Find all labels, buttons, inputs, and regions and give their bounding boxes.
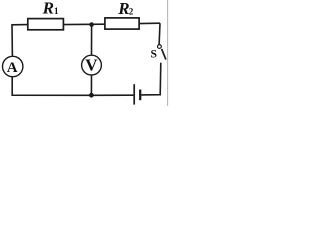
- resistor R2: [105, 18, 139, 29]
- svg-text:R: R: [117, 0, 129, 18]
- svg-text:1: 1: [54, 6, 59, 16]
- switch S blade: [162, 49, 166, 60]
- wire between R1 and R2: [63, 23, 105, 25]
- wire junction down to voltmeter: [91, 25, 93, 56]
- svg-text:2: 2: [129, 6, 134, 16]
- svg-text:A: A: [7, 60, 18, 76]
- svg-text:S: S: [151, 49, 157, 61]
- voltmeter V circle: [82, 55, 102, 75]
- node junction dot bottom: [89, 93, 94, 98]
- wire R2 to top-right corner: [139, 22, 160, 24]
- svg-text:V: V: [85, 56, 98, 75]
- battery short plate (negative): [139, 90, 141, 101]
- scan border line (right edge): [167, 0, 169, 106]
- wire bottom-left segment: [12, 77, 91, 95]
- wire battery to bottom junction: [92, 94, 134, 96]
- resistor R1: [28, 19, 64, 30]
- wire right side down to switch: [158, 23, 161, 44]
- switch S terminal circle: [158, 45, 162, 49]
- node junction dot top: [89, 22, 94, 27]
- wire ammeter up to top-left corner: [11, 25, 13, 56]
- wire voltmeter down to bottom junction: [90, 75, 92, 95]
- wire switch to bottom-right corner: [141, 63, 161, 95]
- wire top-left segment: [12, 24, 28, 26]
- svg-text:R: R: [42, 0, 54, 18]
- ammeter A circle: [3, 56, 23, 76]
- battery long plate (positive): [133, 84, 135, 104]
